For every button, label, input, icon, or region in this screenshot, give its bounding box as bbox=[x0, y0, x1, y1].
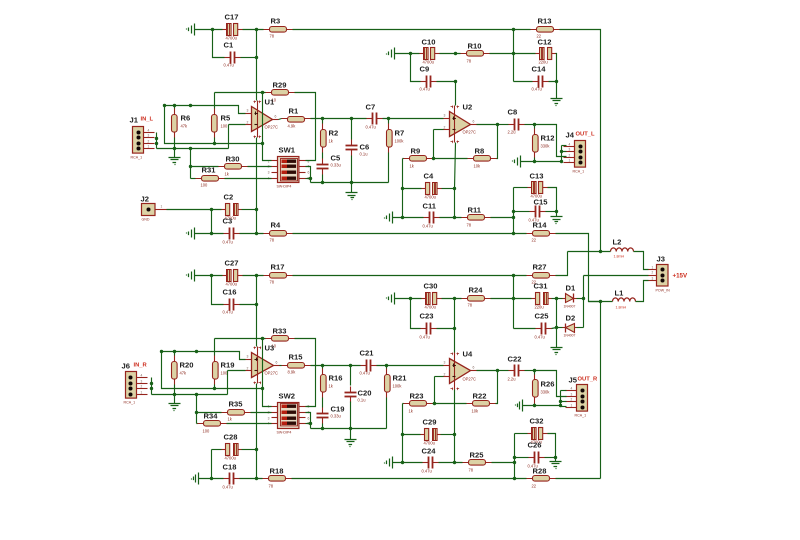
wire corner to C25 bbox=[514, 328, 536, 330]
wire signal to J5 bbox=[535, 371, 567, 397]
junction bias vertical bbox=[189, 147, 192, 150]
svg-text:GND: GND bbox=[142, 218, 150, 222]
resistor R15 bbox=[282, 353, 311, 375]
ground below rail bottom bbox=[345, 440, 357, 447]
svg-text:1: 1 bbox=[571, 404, 573, 408]
junction R29/feedback bbox=[261, 91, 264, 94]
svg-text:3: 3 bbox=[569, 148, 571, 152]
resistor R28 bbox=[527, 467, 556, 489]
junction R11 end bbox=[512, 216, 515, 219]
junction C20 top bbox=[349, 364, 352, 367]
svg-text:C25: C25 bbox=[535, 312, 550, 321]
svg-text:1N4007: 1N4007 bbox=[564, 305, 576, 309]
svg-text:10k: 10k bbox=[474, 164, 482, 169]
capacitor C14 bbox=[532, 65, 549, 92]
junction C14 right bbox=[555, 80, 558, 83]
wire J5 shield pins bbox=[560, 391, 562, 407]
resistor R9 bbox=[404, 147, 433, 169]
wire down to C23 bbox=[411, 299, 421, 329]
svg-text:C8: C8 bbox=[508, 108, 518, 117]
wire J4 shield pins bbox=[561, 146, 563, 162]
wire C28 to rail bbox=[242, 449, 257, 451]
junction C9 branch right bbox=[454, 52, 457, 55]
wire C18 to R18 bbox=[240, 478, 263, 480]
svg-text:2: 2 bbox=[148, 140, 150, 144]
junction J5 pin1 bbox=[559, 404, 562, 407]
wire C31 to D1 bbox=[557, 298, 563, 300]
svg-text:22: 22 bbox=[532, 484, 537, 489]
svg-text:C10: C10 bbox=[422, 38, 436, 47]
svg-text:R17: R17 bbox=[271, 263, 285, 272]
wire R21 bottom to rail bbox=[386, 398, 388, 429]
svg-text:OP27C: OP27C bbox=[265, 371, 278, 376]
svg-text:R5: R5 bbox=[221, 114, 231, 123]
wire C12 down to C14 bbox=[556, 54, 557, 82]
resistor R25 bbox=[463, 451, 492, 473]
svg-text:4.9k: 4.9k bbox=[288, 124, 297, 129]
junction C16/rail bbox=[255, 303, 258, 306]
junction C31 left bbox=[512, 297, 515, 300]
svg-text:2: 2 bbox=[571, 398, 573, 402]
wire U1 out to R1 bbox=[279, 119, 282, 120]
svg-text:R21: R21 bbox=[393, 374, 408, 383]
wire corner to R9 bbox=[403, 158, 404, 160]
svg-text:D1: D1 bbox=[566, 284, 576, 293]
connector J1 IN_L wiring bbox=[156, 133, 158, 149]
svg-text:R20: R20 bbox=[180, 361, 194, 370]
wire C9 to U2 V+ bbox=[437, 82, 456, 106]
svg-text:C16: C16 bbox=[223, 288, 237, 297]
junction C23 branch left bbox=[409, 297, 412, 300]
resistor R8 bbox=[468, 147, 497, 169]
svg-text:C12: C12 bbox=[538, 38, 552, 47]
svg-text:U3: U3 bbox=[265, 344, 275, 353]
wire C6 bottom bbox=[351, 156, 353, 183]
svg-text:78: 78 bbox=[467, 223, 472, 228]
capacitor C15 bbox=[529, 198, 549, 223]
wire SW1 pin5 bbox=[306, 178, 311, 180]
svg-text:0.47u: 0.47u bbox=[420, 87, 430, 92]
junction C4 left bbox=[401, 187, 404, 190]
svg-text:0.47u: 0.47u bbox=[423, 224, 433, 229]
junction C6 bottom bbox=[350, 181, 353, 184]
wire J6 ground row bbox=[152, 394, 228, 396]
wire R33 left to R19 top node bbox=[215, 338, 266, 340]
wire C22 to R26 bbox=[525, 370, 535, 372]
svg-text:3: 3 bbox=[444, 114, 446, 118]
svg-text:4700u: 4700u bbox=[226, 282, 237, 287]
wire R29 right to SW1 pin8 bbox=[295, 93, 316, 161]
junction C28/rail bbox=[255, 448, 258, 451]
svg-text:1N4007: 1N4007 bbox=[564, 334, 576, 338]
junction C4/U2 V- bbox=[453, 187, 456, 190]
polarized capacitor C13 bbox=[528, 172, 548, 199]
resistor R3 bbox=[264, 17, 293, 39]
wire C16 to rail bbox=[240, 304, 257, 306]
wire R27 node down bbox=[513, 276, 515, 329]
wire L2 to J3 pin1 bbox=[634, 252, 649, 270]
resistor R19 bbox=[213, 356, 235, 385]
capacitor C9 bbox=[420, 65, 437, 92]
svg-text:4700u: 4700u bbox=[225, 456, 236, 461]
resistor R2 bbox=[321, 124, 339, 153]
resistor R18 bbox=[263, 467, 292, 489]
wire U4 out bbox=[477, 370, 498, 372]
wire corner to R34 bbox=[197, 423, 198, 425]
junction output/R22 feedback bbox=[496, 369, 499, 372]
junction pin5/pin7 bottom bbox=[309, 422, 312, 425]
svg-text:3: 3 bbox=[444, 361, 446, 365]
svg-text:R19: R19 bbox=[221, 361, 235, 370]
ground top-left supply bbox=[187, 24, 195, 36]
junction C29 left bbox=[401, 433, 404, 436]
junction -in node bottom bbox=[433, 402, 436, 405]
wire gnd to C10 bbox=[395, 53, 420, 55]
svg-text:C9: C9 bbox=[420, 65, 430, 74]
svg-text:2: 2 bbox=[569, 154, 571, 158]
junction J6 pin2 bbox=[150, 387, 153, 390]
junction R25 end bbox=[513, 461, 516, 464]
svg-text:3: 3 bbox=[247, 109, 249, 113]
svg-text:R14: R14 bbox=[533, 221, 548, 230]
wire R8 to output bbox=[497, 125, 498, 159]
resistor R30 bbox=[219, 155, 248, 177]
svg-text:SW2: SW2 bbox=[279, 392, 295, 401]
wire R14 to L1 node bbox=[556, 234, 601, 302]
svg-text:0.33u: 0.33u bbox=[331, 163, 341, 168]
junction C29/U4 V- bbox=[453, 433, 456, 436]
ground J4 row bbox=[513, 156, 521, 168]
capacitor C26 bbox=[528, 441, 545, 469]
wire to L1 bbox=[589, 301, 613, 303]
wire to ground bbox=[555, 458, 557, 462]
capacitor C25 bbox=[535, 312, 552, 340]
svg-text:R9: R9 bbox=[411, 147, 421, 156]
wire C20 top bbox=[350, 366, 352, 386]
svg-text:RCA_1: RCA_1 bbox=[131, 156, 143, 160]
wire R34 to SW2 pin4 bbox=[227, 423, 272, 425]
wire R7 bottom to rail bbox=[388, 153, 390, 183]
svg-text:6: 6 bbox=[276, 361, 278, 365]
svg-text:C13: C13 bbox=[530, 172, 544, 181]
wire C8 to R12 bbox=[525, 124, 535, 126]
wire J1 ground row bbox=[157, 148, 229, 150]
wire C21 to U4 +in bbox=[377, 365, 444, 367]
ground below C26 bbox=[550, 462, 562, 469]
svg-text:R18: R18 bbox=[270, 467, 284, 476]
svg-text:4: 4 bbox=[569, 143, 571, 147]
junction R7 top bbox=[387, 117, 390, 120]
capacitor C18 bbox=[223, 463, 240, 490]
svg-text:R16: R16 bbox=[329, 374, 343, 383]
svg-text:OUT_L: OUT_L bbox=[576, 132, 595, 138]
svg-text:6: 6 bbox=[308, 417, 310, 421]
DIP switch SW1 bbox=[268, 146, 310, 189]
svg-text:C23: C23 bbox=[420, 312, 434, 321]
svg-text:C29: C29 bbox=[423, 418, 437, 427]
junction bias vertical top bbox=[189, 104, 192, 107]
wire C5 bottom bbox=[322, 175, 324, 183]
wire R24 right bbox=[491, 298, 514, 300]
capacitor C16 bbox=[223, 288, 240, 315]
resistor R10 bbox=[461, 42, 490, 64]
svg-text:R4: R4 bbox=[271, 221, 281, 230]
ground below R6 bbox=[169, 158, 181, 165]
wire R28 to -supply vertical bbox=[556, 478, 601, 480]
svg-text:C14: C14 bbox=[532, 65, 547, 74]
capacitor C6 bbox=[346, 140, 370, 157]
svg-text:L1: L1 bbox=[615, 289, 625, 298]
wire bias vertical down bbox=[190, 149, 192, 179]
svg-text:OUT_R: OUT_R bbox=[578, 377, 598, 383]
wire corner to R31 bbox=[191, 178, 196, 180]
svg-text:J4: J4 bbox=[566, 131, 575, 140]
svg-text:J3: J3 bbox=[657, 255, 665, 264]
wire analog ground rail bottom bbox=[311, 428, 387, 430]
svg-text:100k: 100k bbox=[393, 384, 403, 389]
svg-text:C32: C32 bbox=[530, 417, 544, 426]
wire feedback through U1 to SW1 pin1 bbox=[263, 93, 272, 161]
svg-text:C24: C24 bbox=[422, 447, 437, 456]
wire R9 left down to C11 row bbox=[402, 159, 404, 218]
svg-text:C19: C19 bbox=[331, 405, 345, 414]
svg-text:+15V: +15V bbox=[673, 273, 688, 280]
svg-text:R12: R12 bbox=[541, 134, 555, 143]
wire to U3 -in bbox=[228, 370, 246, 372]
junction C28 branch bbox=[210, 477, 213, 480]
wire L1 to J3 pin3 bbox=[636, 281, 649, 302]
svg-text:L2: L2 bbox=[613, 238, 622, 247]
junction C1 branch bbox=[211, 28, 214, 31]
svg-text:1.8mH: 1.8mH bbox=[614, 255, 625, 259]
junction R20 top bbox=[173, 350, 176, 353]
svg-text:R3: R3 bbox=[271, 17, 281, 26]
junction -supply vertical bbox=[599, 300, 602, 303]
svg-text:3: 3 bbox=[247, 355, 249, 359]
svg-text:100: 100 bbox=[201, 183, 209, 188]
junction C26 left bbox=[513, 456, 516, 459]
svg-text:78: 78 bbox=[269, 484, 274, 489]
wire R35 to SW2 pin2 bbox=[251, 412, 272, 414]
resistor R7 bbox=[387, 124, 405, 153]
svg-text:J2: J2 bbox=[141, 195, 149, 204]
svg-text:C2: C2 bbox=[224, 193, 234, 202]
wire to U4 -in bbox=[435, 376, 444, 378]
wire C17 to R3 bbox=[243, 29, 264, 31]
junction R19 bottom bbox=[213, 387, 216, 390]
junction C31/D1 bbox=[555, 297, 558, 300]
svg-text:78: 78 bbox=[467, 59, 472, 64]
svg-text:0.33u: 0.33u bbox=[331, 414, 341, 419]
svg-text:1: 1 bbox=[148, 145, 150, 149]
wire R33 right to SW2 pin8 bbox=[295, 339, 316, 407]
svg-text:78: 78 bbox=[270, 280, 275, 285]
polarized capacitor C27 bbox=[223, 259, 243, 287]
junction output/R8 feedback bbox=[496, 123, 499, 126]
junction C3 left bbox=[210, 232, 213, 235]
svg-text:R30: R30 bbox=[226, 155, 240, 164]
wire R30 to SW1 pin2 bbox=[248, 166, 272, 168]
svg-text:47k: 47k bbox=[180, 371, 188, 376]
capacitor C20 bbox=[345, 387, 372, 403]
svg-text:0.47u: 0.47u bbox=[422, 469, 432, 474]
wire R18 to R28 bbox=[292, 478, 527, 480]
wire signal to J4 pin2 bbox=[535, 125, 567, 157]
wire to C28 bbox=[212, 449, 222, 451]
junction C6 top bbox=[350, 117, 353, 120]
svg-text:C28: C28 bbox=[224, 433, 238, 442]
svg-text:4: 4 bbox=[148, 129, 150, 133]
junction R35 row bbox=[195, 411, 198, 414]
resistor R24 bbox=[462, 286, 491, 308]
capacitor C8 bbox=[508, 108, 525, 135]
wire C32 right down bbox=[548, 434, 556, 458]
svg-text:C20: C20 bbox=[358, 389, 372, 398]
ground C3 row bbox=[187, 228, 195, 240]
junction D1 row bbox=[582, 297, 585, 300]
ground J5 row bbox=[516, 400, 523, 412]
junction R6 bottom bbox=[173, 147, 176, 150]
resistor R1 bbox=[282, 107, 311, 129]
wire R19 bottom stub bbox=[214, 385, 216, 389]
svg-text:RCA_1: RCA_1 bbox=[575, 414, 587, 418]
op-amp U2 bbox=[444, 103, 477, 144]
connector J1 IN_L bbox=[130, 116, 155, 160]
svg-text:3: 3 bbox=[652, 277, 654, 281]
wire C20 bottom bbox=[350, 402, 352, 429]
svg-text:IN_R: IN_R bbox=[134, 363, 148, 369]
wire -supply vertical down bbox=[600, 302, 602, 479]
svg-text:0.1u: 0.1u bbox=[360, 152, 368, 157]
svg-text:J1: J1 bbox=[130, 116, 139, 125]
svg-text:R1: R1 bbox=[289, 107, 299, 116]
svg-text:R23: R23 bbox=[410, 392, 424, 401]
capacitor C22 bbox=[508, 355, 525, 382]
junction C26 right bbox=[554, 456, 557, 459]
wire to C4 bbox=[403, 188, 422, 190]
svg-text:POW_IN: POW_IN bbox=[656, 289, 671, 293]
wire to R35 bbox=[197, 412, 222, 414]
resistor R14 bbox=[527, 221, 556, 243]
wire C14 to ground bbox=[549, 82, 557, 99]
junction bottom rail bbox=[513, 477, 516, 480]
junction C19 bottom bbox=[321, 427, 324, 430]
svg-text:78: 78 bbox=[468, 303, 473, 308]
wire C24 to R25 bbox=[439, 462, 463, 464]
resistor R23 bbox=[404, 392, 433, 414]
wire to C14 bbox=[514, 81, 533, 83]
svg-text:C27: C27 bbox=[225, 259, 239, 268]
ground below C14 bbox=[551, 99, 563, 106]
wire to C31 bbox=[514, 298, 532, 300]
svg-text:R2: R2 bbox=[329, 129, 339, 138]
junction C9/U2 supply bbox=[454, 80, 457, 83]
resistor R21 bbox=[385, 369, 408, 398]
svg-text:OP27C: OP27C bbox=[463, 377, 476, 382]
svg-text:4700u: 4700u bbox=[425, 195, 436, 200]
wire C28 left down bbox=[211, 450, 213, 479]
wire C25 to D2 bbox=[557, 327, 563, 329]
svg-text:SW-DIP4: SW-DIP4 bbox=[277, 431, 292, 435]
svg-text:J6: J6 bbox=[122, 362, 130, 371]
wire C4 right bbox=[442, 188, 455, 190]
resistor R17 bbox=[264, 263, 293, 285]
svg-text:R35: R35 bbox=[229, 400, 244, 409]
wire R5 bottom stub bbox=[214, 138, 216, 144]
junction C2/V- rail bbox=[255, 208, 258, 211]
resistor R20 bbox=[172, 356, 194, 385]
junction feedback node bottom bbox=[261, 387, 264, 390]
wire U1 V- rail down bbox=[256, 138, 258, 234]
resistor R22 bbox=[467, 392, 496, 414]
svg-text:R28: R28 bbox=[533, 467, 547, 476]
svg-text:U1: U1 bbox=[265, 98, 275, 107]
inductor L2 bbox=[611, 238, 634, 259]
svg-text:RCA_1: RCA_1 bbox=[573, 170, 585, 174]
resistor R5 bbox=[212, 109, 231, 138]
wire R11 to vertical bbox=[491, 217, 514, 219]
wire gnd to C30 bbox=[395, 298, 422, 300]
wire to L2 bbox=[568, 251, 611, 253]
junction R26 bottom bbox=[533, 404, 536, 407]
wire gnd to C17 bbox=[195, 29, 223, 31]
svg-text:3: 3 bbox=[148, 134, 150, 138]
svg-text:C18: C18 bbox=[223, 463, 237, 472]
svg-text:100: 100 bbox=[221, 124, 229, 129]
svg-text:4700u: 4700u bbox=[425, 305, 436, 310]
junction R9 vertical end bbox=[401, 216, 404, 219]
svg-text:330k: 330k bbox=[541, 144, 551, 149]
wire R15 to C21 bbox=[311, 365, 361, 367]
wire input row to U3 +in bbox=[162, 352, 246, 360]
wire to C1 bbox=[213, 30, 225, 58]
svg-text:8.9k: 8.9k bbox=[288, 370, 297, 375]
op-amp U4 bbox=[444, 350, 477, 391]
polarized capacitor C4 bbox=[422, 172, 442, 200]
svg-text:C26: C26 bbox=[528, 441, 542, 450]
wire R12 top stub bbox=[534, 125, 536, 129]
svg-text:2: 2 bbox=[652, 271, 654, 275]
svg-text:C17: C17 bbox=[225, 13, 239, 22]
svg-text:C3: C3 bbox=[223, 217, 233, 226]
polarized capacitor C29 bbox=[421, 418, 441, 446]
svg-text:R10: R10 bbox=[468, 42, 482, 51]
svg-text:1: 1 bbox=[652, 266, 654, 270]
junction R5 bottom bbox=[213, 142, 216, 145]
wire C19 bottom bbox=[322, 424, 324, 429]
resistor R31 bbox=[196, 166, 225, 188]
junction J1 pin2 bbox=[155, 142, 158, 145]
svg-text:2: 2 bbox=[444, 373, 446, 377]
resistor R34 bbox=[198, 412, 227, 434]
junction R26 top bbox=[533, 369, 536, 372]
svg-text:220u: 220u bbox=[535, 305, 544, 310]
junction C20 bottom bbox=[349, 427, 352, 430]
wire C1 to rail bbox=[241, 57, 257, 59]
wire down to C3 bbox=[211, 210, 213, 234]
junction C24 right bbox=[453, 461, 456, 464]
junction R12 top bbox=[533, 123, 536, 126]
wire input row to U1 +in bbox=[165, 106, 246, 114]
wire R20 to ground bbox=[174, 385, 176, 404]
svg-text:C31: C31 bbox=[534, 282, 549, 291]
wire SW2 pin7 down to rail bbox=[306, 413, 311, 429]
svg-text:2.2u: 2.2u bbox=[508, 130, 516, 135]
wire R6 to ground bbox=[174, 138, 176, 158]
svg-text:6: 6 bbox=[473, 366, 475, 370]
wire R3 to R13 bbox=[293, 29, 531, 31]
capacitor C19 bbox=[317, 405, 345, 424]
